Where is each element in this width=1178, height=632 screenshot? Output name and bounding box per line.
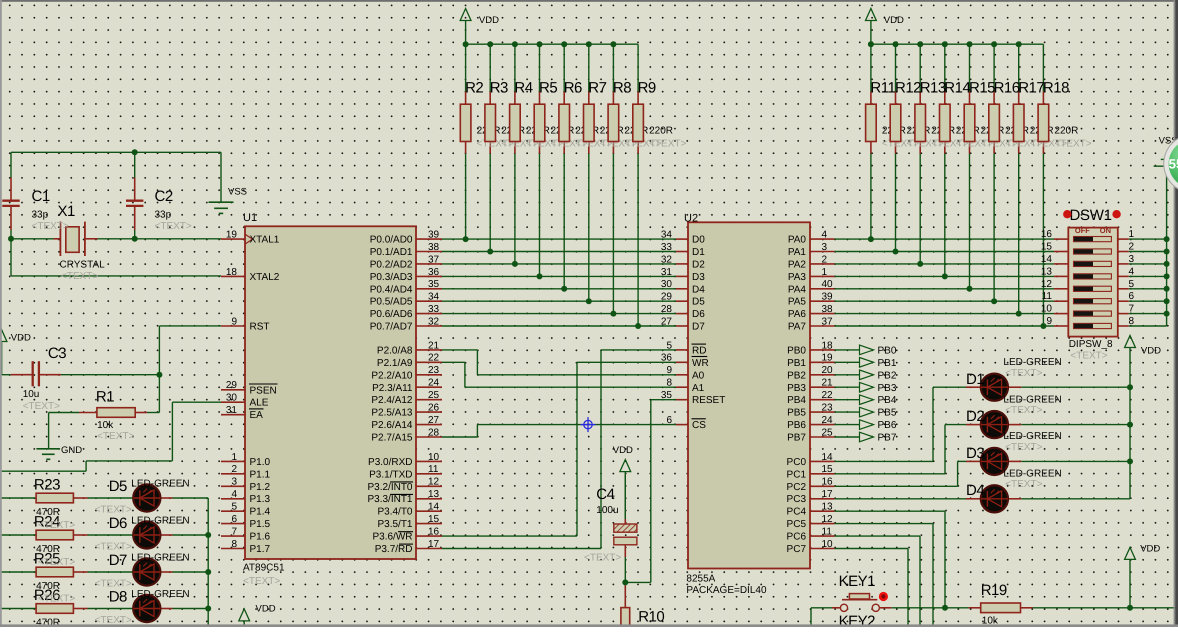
svg-text:P0.4/AD4: P0.4/AD4 <box>370 284 413 295</box>
svg-text:P2.1/A9: P2.1/A9 <box>377 358 413 369</box>
svg-text:10: 10 <box>428 452 440 463</box>
svg-text:PC2: PC2 <box>787 482 807 493</box>
svg-text:PB3: PB3 <box>878 383 897 394</box>
svg-text:P1.5: P1.5 <box>250 519 271 530</box>
svg-text:29: 29 <box>226 380 238 391</box>
svg-text:35: 35 <box>428 279 440 290</box>
svg-text:PA3: PA3 <box>788 272 807 283</box>
svg-text:LED-GREEN: LED-GREEN <box>1003 469 1061 480</box>
svg-text:<TEXT>: <TEXT> <box>38 557 75 568</box>
svg-text:XTAL1: XTAL1 <box>250 235 280 246</box>
svg-text:4: 4 <box>1129 266 1135 277</box>
svg-text:39: 39 <box>822 292 834 303</box>
svg-text:LED-GREEN: LED-GREEN <box>1003 357 1061 368</box>
svg-text:PB6: PB6 <box>878 420 897 431</box>
svg-text:14: 14 <box>428 502 440 513</box>
svg-text:C3: C3 <box>48 345 66 362</box>
svg-text:11: 11 <box>822 527 833 538</box>
svg-text:DSW1: DSW1 <box>1070 207 1112 224</box>
svg-text:PB2: PB2 <box>878 370 897 381</box>
svg-text:P1.6: P1.6 <box>250 532 271 543</box>
svg-text:R7: R7 <box>588 80 606 97</box>
svg-text:35: 35 <box>661 390 673 401</box>
svg-text:RST: RST <box>250 322 270 333</box>
svg-text:<TEXT>: <TEXT> <box>38 594 75 605</box>
svg-text:GND: GND <box>61 445 82 456</box>
svg-text:5: 5 <box>666 340 672 351</box>
svg-text:PSEN: PSEN <box>250 385 277 396</box>
svg-text:9: 9 <box>231 316 237 327</box>
svg-text:18: 18 <box>822 340 834 351</box>
svg-text:39: 39 <box>428 230 440 241</box>
svg-text:LED-GREEN: LED-GREEN <box>1003 431 1061 442</box>
svg-text:5: 5 <box>1129 279 1135 290</box>
svg-text:XTAL2: XTAL2 <box>250 272 280 283</box>
svg-text:PB0: PB0 <box>878 345 897 356</box>
svg-text:C1: C1 <box>32 188 50 205</box>
svg-text:P2.0/A8: P2.0/A8 <box>377 345 413 356</box>
svg-text:P2.2/A10: P2.2/A10 <box>371 370 413 381</box>
svg-text:3: 3 <box>1129 254 1135 265</box>
svg-text:33p: 33p <box>155 210 172 221</box>
svg-text:2: 2 <box>822 254 828 265</box>
svg-text:9: 9 <box>666 365 672 376</box>
svg-text:R23: R23 <box>34 477 60 494</box>
svg-text:38: 38 <box>822 304 834 315</box>
svg-text:<TEXT>: <TEXT> <box>23 401 60 412</box>
svg-text:15: 15 <box>822 464 834 475</box>
svg-text:14: 14 <box>822 452 834 463</box>
svg-text:R3: R3 <box>490 80 508 97</box>
svg-text:25: 25 <box>428 390 440 401</box>
svg-text:26: 26 <box>428 403 440 414</box>
svg-text:PC7: PC7 <box>787 544 807 555</box>
svg-text:P3.1/TXD: P3.1/TXD <box>369 469 412 480</box>
svg-text:PA5: PA5 <box>788 297 807 308</box>
svg-text:R12: R12 <box>895 80 921 97</box>
svg-text:PB5: PB5 <box>787 408 806 419</box>
svg-text:2: 2 <box>231 464 237 475</box>
svg-text:D3: D3 <box>966 445 984 462</box>
svg-text:33: 33 <box>428 304 440 315</box>
svg-text:28: 28 <box>661 304 673 315</box>
svg-text:<TEXT>: <TEXT> <box>1005 479 1042 490</box>
svg-text:KEY1: KEY1 <box>839 573 876 590</box>
svg-text:15: 15 <box>1041 242 1053 253</box>
svg-text:LED-GREEN: LED-GREEN <box>131 479 189 490</box>
svg-text:PC0: PC0 <box>787 457 807 468</box>
svg-text:D2: D2 <box>966 408 984 425</box>
svg-text:8: 8 <box>1129 316 1135 327</box>
svg-text:25: 25 <box>822 427 834 438</box>
svg-text:D0: D0 <box>692 235 705 246</box>
svg-text:<TEXT>: <TEXT> <box>32 221 69 232</box>
svg-text:24: 24 <box>822 415 834 426</box>
svg-text:VDD: VDD <box>1141 346 1161 357</box>
svg-text:D4: D4 <box>692 284 705 295</box>
svg-text:13: 13 <box>428 489 440 500</box>
svg-text:220R: 220R <box>1054 125 1078 136</box>
svg-text:22: 22 <box>428 353 440 364</box>
svg-text:30: 30 <box>661 279 673 290</box>
svg-text:OFF: OFF <box>1075 226 1090 235</box>
svg-text:<TEXT>: <TEXT> <box>243 576 280 587</box>
svg-text:R13: R13 <box>920 80 946 97</box>
svg-text:16: 16 <box>1041 229 1053 240</box>
svg-text:P3.7/RD: P3.7/RD <box>375 544 413 555</box>
svg-text:36: 36 <box>661 353 673 364</box>
svg-text:P0.0/AD0: P0.0/AD0 <box>370 235 413 246</box>
svg-text:6: 6 <box>231 514 237 525</box>
svg-text:17: 17 <box>428 539 440 550</box>
svg-text:P0.1/AD1: P0.1/AD1 <box>370 247 413 258</box>
svg-text:P0.3/AD3: P0.3/AD3 <box>370 272 413 283</box>
svg-text:P3.3/INT1: P3.3/INT1 <box>367 494 412 505</box>
svg-text:37: 37 <box>822 316 834 327</box>
svg-text:LED-GREEN: LED-GREEN <box>1003 394 1061 405</box>
svg-text:PB4: PB4 <box>878 395 897 406</box>
svg-text:36: 36 <box>428 267 440 278</box>
svg-text:VDD: VDD <box>11 333 31 344</box>
svg-text:7: 7 <box>231 527 237 538</box>
svg-text:10: 10 <box>1041 304 1053 315</box>
svg-text:23: 23 <box>822 403 834 414</box>
svg-text:4: 4 <box>822 230 828 241</box>
svg-text:PB3: PB3 <box>787 383 806 394</box>
svg-text:D7: D7 <box>692 322 705 333</box>
svg-text:PB7: PB7 <box>787 433 806 444</box>
svg-text:VDD: VDD <box>479 15 499 26</box>
svg-text:PA6: PA6 <box>788 309 807 320</box>
svg-text:D5: D5 <box>692 297 705 308</box>
svg-text:PC3: PC3 <box>787 494 807 505</box>
svg-text:30: 30 <box>226 393 238 404</box>
svg-text:P3.5/T1: P3.5/T1 <box>377 519 412 530</box>
svg-text:P0.7/AD7: P0.7/AD7 <box>370 322 413 333</box>
svg-text:D6: D6 <box>692 309 705 320</box>
svg-text:10u: 10u <box>23 389 40 400</box>
svg-text:P1.3: P1.3 <box>250 494 271 505</box>
svg-text:U1: U1 <box>243 212 257 224</box>
svg-text:CRYSTAL: CRYSTAL <box>60 259 106 270</box>
svg-text:PA0: PA0 <box>788 235 807 246</box>
svg-text:16: 16 <box>822 477 834 488</box>
svg-text:D3: D3 <box>692 272 705 283</box>
svg-text:21: 21 <box>822 378 834 389</box>
svg-text:P0.6/AD6: P0.6/AD6 <box>370 309 413 320</box>
svg-text:X1: X1 <box>58 203 76 220</box>
svg-text:32: 32 <box>661 254 673 265</box>
svg-text:RESET: RESET <box>692 395 725 406</box>
svg-text:13: 13 <box>822 502 834 513</box>
svg-text:20: 20 <box>822 365 834 376</box>
svg-text:PC6: PC6 <box>787 532 807 543</box>
svg-text:<TEXT>: <TEXT> <box>155 221 192 232</box>
svg-text:27: 27 <box>661 316 673 327</box>
svg-text:18: 18 <box>226 267 238 278</box>
svg-text:R17: R17 <box>1018 80 1044 97</box>
svg-text:R9: R9 <box>638 80 656 97</box>
svg-text:32: 32 <box>428 316 440 327</box>
svg-text:12: 12 <box>428 477 440 488</box>
svg-text:40: 40 <box>822 279 834 290</box>
svg-text:VSS: VSS <box>228 187 247 198</box>
svg-text:15: 15 <box>428 514 440 525</box>
svg-text:27: 27 <box>428 415 440 426</box>
svg-text:PB1: PB1 <box>787 358 806 369</box>
svg-text:<TEXT>: <TEXT> <box>1054 139 1091 150</box>
svg-text:<TEXT>: <TEXT> <box>1005 405 1042 416</box>
svg-text:ON: ON <box>1100 226 1111 235</box>
svg-text:10: 10 <box>822 539 834 550</box>
svg-text:P1.4: P1.4 <box>250 507 271 518</box>
svg-text:33p: 33p <box>32 210 49 221</box>
svg-text:PC1: PC1 <box>787 469 807 480</box>
svg-text:<TEXT>: <TEXT> <box>38 520 75 531</box>
svg-text:<TEXT>: <TEXT> <box>584 552 621 563</box>
svg-text:VDD: VDD <box>1140 544 1160 555</box>
svg-text:13: 13 <box>1041 266 1053 277</box>
svg-text:34: 34 <box>428 292 440 303</box>
svg-text:<TEXT>: <TEXT> <box>61 271 98 282</box>
svg-text:28: 28 <box>428 427 440 438</box>
svg-text:P2.5/A13: P2.5/A13 <box>371 408 413 419</box>
svg-text:P3.2/INT0: P3.2/INT0 <box>367 482 412 493</box>
svg-text:12: 12 <box>822 514 834 525</box>
svg-text:6: 6 <box>666 415 672 426</box>
svg-text:D2: D2 <box>692 259 705 270</box>
svg-text:R6: R6 <box>564 80 582 97</box>
svg-text:8255A: 8255A <box>686 574 715 585</box>
svg-text:P2.6/A14: P2.6/A14 <box>371 420 413 431</box>
svg-text:D5: D5 <box>109 478 127 495</box>
svg-text:<TEXT>: <TEXT> <box>97 431 134 442</box>
svg-text:1: 1 <box>231 452 237 463</box>
svg-text:WR: WR <box>692 358 709 369</box>
svg-text:A1: A1 <box>692 383 705 394</box>
svg-text:A0: A0 <box>692 370 705 381</box>
svg-text:7: 7 <box>1129 304 1135 315</box>
svg-text:8: 8 <box>231 539 237 550</box>
svg-text:LED-GREEN: LED-GREEN <box>131 516 189 527</box>
svg-text:11: 11 <box>428 464 439 475</box>
svg-text:PB7: PB7 <box>878 433 897 444</box>
svg-text:RD: RD <box>692 345 706 356</box>
svg-text:1: 1 <box>822 267 828 278</box>
svg-text:R15: R15 <box>969 80 995 97</box>
svg-text:3: 3 <box>822 242 828 253</box>
svg-text:PA2: PA2 <box>788 259 807 270</box>
svg-text:PA1: PA1 <box>788 247 807 258</box>
svg-text:PB4: PB4 <box>787 395 806 406</box>
svg-text:9: 9 <box>1046 316 1052 327</box>
svg-text:R4: R4 <box>514 80 532 97</box>
svg-text:AT89C51: AT89C51 <box>243 562 285 573</box>
svg-text:16: 16 <box>428 527 440 538</box>
svg-text:R19: R19 <box>981 582 1007 599</box>
svg-text:P3.0/RXD: P3.0/RXD <box>368 457 412 468</box>
svg-text:100u: 100u <box>596 505 618 516</box>
svg-text:R2: R2 <box>465 80 483 97</box>
svg-text:P2.4/A12: P2.4/A12 <box>371 395 413 406</box>
svg-text:P1.1: P1.1 <box>250 469 271 480</box>
svg-text:PA7: PA7 <box>788 322 807 333</box>
svg-text:R14: R14 <box>944 80 970 97</box>
svg-text:U2: U2 <box>684 212 698 224</box>
svg-text:P1.2: P1.2 <box>250 482 271 493</box>
svg-text:22: 22 <box>822 390 834 401</box>
svg-text:31: 31 <box>661 267 673 278</box>
svg-text:PB5: PB5 <box>878 408 897 419</box>
svg-text:R1: R1 <box>96 389 114 406</box>
svg-text:PB0: PB0 <box>787 345 806 356</box>
svg-text:P2.7/A15: P2.7/A15 <box>371 433 413 444</box>
svg-text:PA4: PA4 <box>788 284 807 295</box>
svg-text:D4: D4 <box>966 482 984 499</box>
svg-text:21: 21 <box>428 340 440 351</box>
svg-text:R11: R11 <box>870 80 895 97</box>
svg-text:33: 33 <box>661 242 673 253</box>
svg-text:P1.0: P1.0 <box>250 457 271 468</box>
svg-text:EA: EA <box>250 410 264 421</box>
svg-text:C4: C4 <box>596 486 614 503</box>
svg-text:10k: 10k <box>97 420 114 431</box>
svg-text:R5: R5 <box>539 80 557 97</box>
svg-text:DIPSW_8: DIPSW_8 <box>1069 339 1113 350</box>
svg-text:<TEXT>: <TEXT> <box>1070 351 1107 362</box>
svg-text:17: 17 <box>822 489 834 500</box>
svg-text:LED-GREEN: LED-GREEN <box>131 553 189 564</box>
svg-text:R16: R16 <box>994 80 1020 97</box>
svg-text:38: 38 <box>428 242 440 253</box>
svg-text:5: 5 <box>231 502 237 513</box>
svg-text:55: 55 <box>1169 157 1178 172</box>
svg-text:2: 2 <box>1129 242 1135 253</box>
svg-text:8: 8 <box>666 378 672 389</box>
svg-text:PB2: PB2 <box>787 370 806 381</box>
svg-text:ALE: ALE <box>250 398 269 409</box>
svg-text:29: 29 <box>661 292 673 303</box>
svg-text:P1.7: P1.7 <box>250 544 271 555</box>
svg-text:VDD: VDD <box>256 603 276 614</box>
svg-text:LED-GREEN: LED-GREEN <box>131 589 189 600</box>
svg-text:D6: D6 <box>109 515 127 532</box>
svg-text:D1: D1 <box>966 371 984 388</box>
svg-text:CS: CS <box>692 420 706 431</box>
svg-text:D8: D8 <box>109 588 127 605</box>
svg-text:19: 19 <box>822 353 834 364</box>
svg-text:D1: D1 <box>692 247 705 258</box>
svg-text:34: 34 <box>661 230 673 241</box>
svg-text:R8: R8 <box>613 80 631 97</box>
svg-text:19: 19 <box>226 230 238 241</box>
svg-text:R10: R10 <box>638 608 664 625</box>
svg-text:24: 24 <box>428 378 440 389</box>
svg-text:D7: D7 <box>109 552 127 569</box>
svg-text:P2.3/A11: P2.3/A11 <box>372 383 413 394</box>
svg-text:PACKAGE=DIL40: PACKAGE=DIL40 <box>686 585 767 596</box>
svg-text:P3.6/WR: P3.6/WR <box>372 532 412 543</box>
svg-text:<TEXT>: <TEXT> <box>1005 442 1042 453</box>
svg-text:3: 3 <box>231 477 237 488</box>
svg-text:37: 37 <box>428 254 440 265</box>
svg-text:C2: C2 <box>155 188 173 205</box>
svg-text:P0.2/AD2: P0.2/AD2 <box>370 259 413 270</box>
svg-text:220R: 220R <box>649 125 673 136</box>
svg-text:12: 12 <box>1041 279 1053 290</box>
svg-text:1: 1 <box>1129 229 1135 240</box>
svg-text:<TEXT>: <TEXT> <box>649 139 686 150</box>
svg-text:VDD: VDD <box>884 15 904 26</box>
svg-text:P0.5/AD5: P0.5/AD5 <box>370 297 413 308</box>
svg-text:R18: R18 <box>1043 80 1069 97</box>
svg-text:31: 31 <box>226 405 238 416</box>
svg-text:VDD: VDD <box>613 445 633 456</box>
svg-text:14: 14 <box>1041 254 1053 265</box>
svg-text:P3.4/T0: P3.4/T0 <box>377 507 412 518</box>
svg-text:<TEXT>: <TEXT> <box>1005 368 1042 379</box>
svg-text:6: 6 <box>1129 291 1135 302</box>
svg-text:PB1: PB1 <box>878 358 897 369</box>
svg-text:PC5: PC5 <box>787 519 807 530</box>
svg-text:PC4: PC4 <box>787 507 807 518</box>
svg-text:4: 4 <box>231 489 237 500</box>
svg-text:PB6: PB6 <box>787 420 806 431</box>
svg-text:11: 11 <box>1042 291 1053 302</box>
svg-text:23: 23 <box>428 365 440 376</box>
